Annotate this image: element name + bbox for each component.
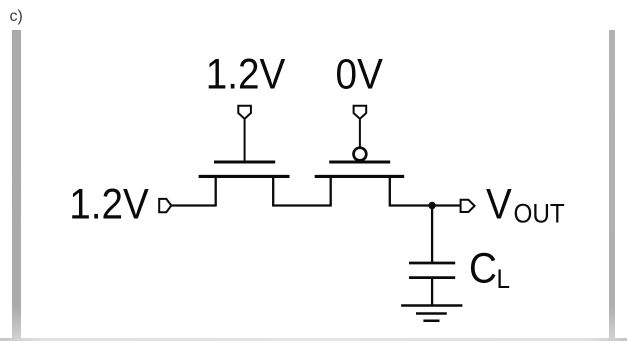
svg-text:C: C [469,244,497,292]
label 1.2V (input source) [69,180,149,228]
wire (M1 drain to M2 source) [272,204,332,206]
wire (input to M1 source) [172,204,217,206]
svg-text:0V: 0V [336,50,384,98]
pin (input 1.2V) [159,199,171,212]
decorative right bar [609,30,615,339]
svg-text:V: V [486,179,512,227]
transistor M2 (PMOS pass transistor) [315,148,405,206]
transistor M1 (NMOS pass transistor) [199,162,290,206]
wire (gate of M2) [359,120,361,148]
wire (output node down to CL) [431,206,433,263]
decorative bottom line [0,338,627,341]
pin (gate input of M1) [238,106,251,119]
ground [401,306,462,321]
pin (output VOUT) [461,200,475,212]
pin (gate input of M2) [354,106,367,119]
label 0V (gate drive of M2) [336,50,384,98]
wire (CL to ground) [431,278,433,306]
wire (M2 drain to output node) [389,204,460,206]
label 1.2V (gate drive of M1) [206,50,286,98]
wire (gate of M1) [244,120,246,162]
node VOUT (junction dot) [428,202,435,209]
label c) [10,8,23,26]
svg-text:L: L [497,265,511,294]
svg-text:1.2V: 1.2V [206,50,286,98]
decorative left bar [12,30,21,338]
svg-text:1.2V: 1.2V [69,180,149,228]
label VOUT [486,179,512,227]
label CL [469,244,497,292]
capacitor CL [409,263,455,278]
svg-text:OUT: OUT [514,199,566,228]
